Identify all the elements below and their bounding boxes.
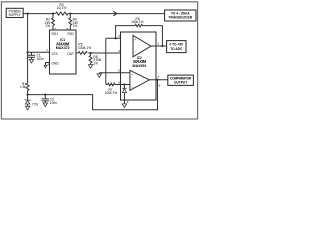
svg-text:5: 5 [118, 69, 120, 73]
svg-text:RG1: RG1 [52, 32, 59, 36]
node A junction [27, 13, 29, 15]
wire VCC column [27, 14, 29, 83]
svg-text:4: 4 [47, 62, 49, 66]
reference diode [122, 85, 126, 104]
svg-text:MAX472: MAX472 [56, 46, 70, 50]
resistor R1 [20, 82, 29, 95]
wire top rail left [23, 13, 56, 15]
node comp out junction [156, 79, 158, 81]
svg-text:7: 7 [157, 75, 159, 79]
svg-text:3: 3 [118, 49, 120, 53]
node op out junction [161, 45, 163, 47]
svg-text:RG2: RG2 [67, 32, 74, 36]
transducer box [165, 10, 196, 21]
node B junction [52, 13, 54, 15]
node ref rail left [27, 94, 29, 96]
resistor R5 [78, 43, 91, 55]
ground R8 [88, 65, 92, 69]
wire OUT of IC1 [76, 52, 78, 54]
wire R7 corner [106, 84, 108, 86]
resistor R4 [69, 14, 78, 30]
svg-text:+: + [134, 38, 136, 42]
svg-text:1: 1 [157, 42, 159, 46]
wire op out [151, 45, 167, 47]
svg-text:−: − [135, 50, 137, 54]
wire long vertical to R7 [105, 38, 107, 84]
wire comp out [149, 79, 167, 81]
svg-text:1%: 1% [73, 24, 78, 28]
node feedback tap [115, 37, 117, 39]
resistor R7 [105, 83, 118, 95]
comparator output box [168, 75, 194, 85]
svg-text:VCC: VCC [52, 52, 59, 56]
svg-text:1.5k: 1.5k [20, 85, 26, 89]
ground IC2 pin4 [122, 104, 126, 108]
svg-text:SUPPLY: SUPPLY [9, 13, 22, 17]
IC2 MAX951 box [121, 32, 157, 100]
arrow current direction [113, 11, 117, 15]
adc box [167, 41, 186, 53]
svg-text:MAX951: MAX951 [133, 64, 147, 68]
svg-text:7.5V: 7.5V [32, 103, 39, 107]
svg-text:GND: GND [52, 61, 60, 65]
wire top rail right [68, 13, 165, 15]
wire R6 loop right down [143, 26, 163, 46]
wire VCC to IC1 [28, 51, 50, 53]
wire R6 loop up [116, 26, 135, 39]
node VCC junction [27, 51, 29, 53]
svg-text:OUTPUT: OUTPUT [174, 80, 187, 84]
ground C2 [43, 103, 47, 107]
ground pin5 [98, 73, 100, 74]
svg-text:100k 1%: 100k 1% [131, 20, 144, 24]
resistor R8 [89, 53, 101, 65]
resistor R2 [45, 14, 55, 30]
svg-text:TO ADC: TO ADC [170, 47, 183, 51]
svg-text:TRANSDUCER: TRANSDUCER [168, 15, 192, 19]
IC1 MAX472 box [50, 30, 77, 74]
wire pin2 [106, 37, 133, 39]
svg-text:1Ω 1%: 1Ω 1% [57, 6, 67, 10]
svg-text:−: − [132, 85, 134, 89]
comparator C triangle [130, 70, 150, 90]
svg-text:OUT: OUT [67, 52, 74, 56]
wire reference rail [28, 80, 158, 110]
svg-text:3.83k 1%: 3.83k 1% [78, 46, 91, 50]
svg-text:100n: 100n [37, 57, 44, 61]
svg-text:+: + [131, 73, 133, 77]
node R8 junction [90, 52, 92, 54]
svg-text:100n: 100n [50, 101, 57, 105]
capacitor C1 [28, 52, 44, 61]
op-amp A triangle [133, 35, 151, 56]
zener diode D1 [25, 95, 39, 107]
resistor R3 [56, 12, 69, 15]
svg-text:6: 6 [118, 80, 120, 84]
svg-text:100k 1%: 100k 1% [105, 91, 118, 95]
svg-text:1%: 1% [93, 61, 98, 65]
svg-text:2: 2 [118, 34, 120, 38]
svg-text:1%: 1% [45, 24, 50, 28]
capacitor C2 [42, 94, 57, 105]
wire IC1 GND stub [46, 63, 50, 66]
wire R5 to pin3 [88, 52, 133, 54]
node C junction [69, 13, 71, 15]
wire R7 to pin6 [115, 84, 130, 86]
power supply box PS [6, 8, 23, 17]
svg-text:8: 8 [159, 84, 161, 88]
ground IC1 [44, 65, 47, 68]
wire pin5 gnd [99, 72, 130, 74]
node ref diode tap [123, 83, 125, 85]
border frame [1, 2, 197, 119]
ground zener [25, 106, 29, 110]
resistor R6 [135, 24, 143, 27]
ground C1 [29, 59, 33, 63]
